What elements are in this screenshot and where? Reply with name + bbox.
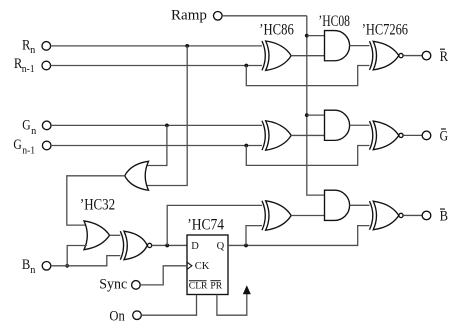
junction Rn branch bbox=[185, 44, 189, 48]
wire XNOR R output bbox=[403, 55, 422, 57]
svg-text:CK: CK bbox=[195, 261, 210, 272]
output terminal R-bar bbox=[422, 51, 431, 60]
svg-text:G: G bbox=[440, 129, 449, 145]
svg-text:n-1: n-1 bbox=[22, 64, 35, 75]
and-gate R (HC08) bbox=[325, 31, 350, 61]
svg-text:B: B bbox=[440, 209, 448, 225]
xor-gate R body (HC86) bbox=[266, 41, 292, 70]
output terminal G-bar bbox=[422, 131, 431, 140]
wire XOR R output to AND bbox=[291, 55, 324, 57]
xnor-gate B body (HC7266) bbox=[373, 201, 399, 230]
xnor-gate G body (HC7266) bbox=[373, 121, 399, 150]
clock triangle bbox=[187, 262, 192, 269]
svg-text:’HC08: ’HC08 bbox=[318, 13, 350, 30]
xor-gate G body (HC86) bbox=[266, 121, 292, 150]
wire OR32a output to OR32b upper input bbox=[67, 176, 125, 225]
xnor-gate U3d body bbox=[124, 231, 147, 260]
xnor-gate B bubble bbox=[399, 213, 403, 217]
wire Ramp branch to AND G bbox=[307, 114, 325, 116]
junction D branch bbox=[165, 244, 169, 248]
svg-text:n-1: n-1 bbox=[22, 146, 35, 157]
wire Rn branch to OR32a lower input bbox=[147, 46, 188, 186]
svg-text:On: On bbox=[109, 309, 125, 325]
wire AND G output to XNOR bbox=[350, 124, 372, 126]
junction Ramp-to-HC08-G bbox=[305, 113, 309, 117]
xor-gate B back arc bbox=[262, 201, 265, 230]
svg-text:Q: Q bbox=[217, 241, 225, 252]
wire Gn-1 line bbox=[51, 145, 264, 147]
svg-text:CLR: CLR bbox=[189, 281, 208, 292]
wire Ramp branch to AND R bbox=[307, 35, 325, 37]
wire XNOR G output bbox=[403, 134, 422, 136]
xnor-gate U3d bubble bbox=[148, 243, 152, 247]
wire XOR G output to AND bbox=[291, 134, 324, 136]
svg-text:Ramp: Ramp bbox=[171, 7, 207, 23]
svg-text:PR: PR bbox=[210, 281, 222, 292]
wire D branch to XOR B upper input bbox=[167, 205, 264, 245]
xnor-gate G back arc bbox=[370, 121, 373, 150]
wire Q branch to XOR B lower input bbox=[246, 226, 264, 246]
wire Gn branch to OR32a upper input bbox=[147, 125, 167, 165]
flip-flop U5 'HC74 box bbox=[187, 235, 228, 295]
wire Rn-1 line bbox=[51, 65, 265, 67]
wire Bn to OR32b lower input bbox=[67, 246, 87, 266]
wire On to CLR bbox=[141, 295, 196, 316]
wire D line bbox=[152, 244, 187, 246]
xnor-gate R back arc bbox=[370, 41, 373, 70]
wire Q line bbox=[228, 226, 371, 246]
and-gate G (HC08) bbox=[325, 110, 350, 140]
or-gate U4b 'HC32 bbox=[84, 221, 110, 250]
xnor-gate G bubble bbox=[399, 133, 403, 137]
input terminal Gn-1 bbox=[42, 141, 51, 150]
svg-text:’HC86: ’HC86 bbox=[259, 22, 294, 39]
svg-text:n: n bbox=[30, 265, 35, 276]
wire OR32b output to XNOR input bbox=[110, 234, 122, 236]
svg-text:D: D bbox=[191, 241, 199, 252]
input terminal Bn bbox=[42, 262, 51, 271]
junction Gn-1 underpass bbox=[244, 144, 248, 148]
xnor-gate R bubble bbox=[399, 53, 403, 57]
wire Rn-1 underpass bbox=[246, 66, 371, 86]
svg-text:n: n bbox=[31, 126, 36, 137]
or-gate U4a 'HC32 (left-facing) bbox=[125, 161, 149, 190]
wire Rn line bbox=[51, 45, 265, 47]
svg-text:’HC32: ’HC32 bbox=[80, 196, 115, 213]
wire Gn line bbox=[51, 124, 264, 126]
svg-text:’HC74: ’HC74 bbox=[187, 217, 224, 234]
wire Ramp vertical bus bbox=[307, 16, 325, 195]
input terminal Sync bbox=[132, 281, 141, 290]
xor-gate B body (HC86) bbox=[266, 201, 292, 230]
svg-text:B: B bbox=[22, 257, 30, 273]
xor-gate G back arc bbox=[262, 121, 265, 150]
output terminal B-bar bbox=[422, 211, 431, 220]
svg-text:Sync: Sync bbox=[99, 277, 127, 293]
junction Bn branch bbox=[65, 264, 69, 268]
svg-text:’HC7266: ’HC7266 bbox=[362, 21, 408, 38]
wire PR pull-up bbox=[217, 294, 247, 315]
junction Q branch bbox=[244, 244, 248, 248]
svg-text:G: G bbox=[22, 117, 31, 133]
pull-up arrow bbox=[243, 285, 251, 294]
input terminal Ramp bbox=[214, 12, 223, 21]
xor-gate R back arc bbox=[262, 41, 265, 70]
svg-text:G: G bbox=[13, 137, 22, 153]
svg-text:R: R bbox=[440, 49, 449, 65]
input terminal Rn-1 bbox=[42, 61, 51, 70]
wire Gn-1 underpass bbox=[246, 146, 371, 166]
junction Gn branch bbox=[165, 124, 169, 128]
svg-text:n: n bbox=[30, 45, 35, 56]
and-gate B (HC08) bbox=[325, 190, 350, 220]
wire XOR B output to AND bbox=[291, 215, 324, 217]
xnor-gate R body (HC7266) bbox=[373, 41, 399, 70]
wire Ramp horizontal bbox=[222, 15, 307, 17]
wire Sync to CK bbox=[140, 266, 187, 285]
wire AND R output to XNOR bbox=[350, 45, 372, 47]
xnor-gate U3d back arc bbox=[120, 231, 123, 260]
wire XNOR B output bbox=[403, 214, 422, 216]
input terminal On bbox=[133, 311, 142, 320]
junction Ramp-to-HC08-R bbox=[305, 34, 309, 38]
wire Bn line bbox=[51, 256, 122, 266]
wire AND B output to XNOR bbox=[350, 204, 372, 206]
xnor-gate B back arc bbox=[370, 201, 373, 230]
junction Rn-1 underpass bbox=[244, 64, 248, 68]
input terminal Gn bbox=[42, 121, 51, 130]
input terminal Rn bbox=[42, 42, 51, 51]
